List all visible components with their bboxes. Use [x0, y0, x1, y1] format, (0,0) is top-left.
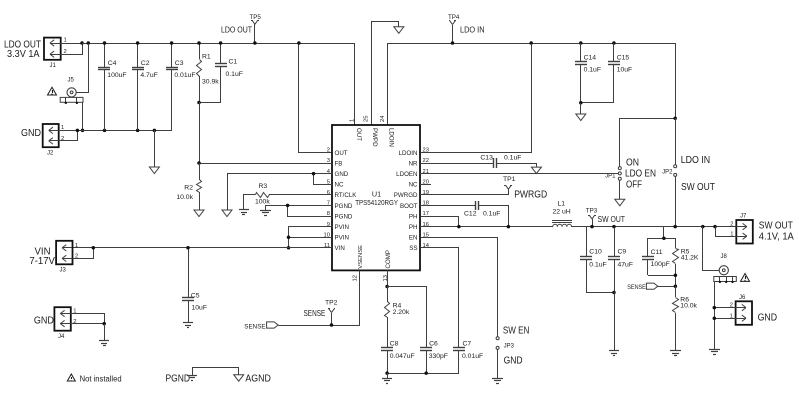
junction R5 bottom	[674, 274, 678, 278]
wire J3 pin2 join	[73, 248, 94, 259]
svg-text:C11: C11	[651, 249, 663, 256]
svg-text:OFF: OFF	[626, 180, 642, 191]
wire NC pin5 join	[314, 174, 333, 185]
wire to J8	[703, 227, 720, 271]
svg-text:JP3: JP3	[504, 343, 515, 349]
label SW EN	[503, 326, 530, 337]
junction pin7/8	[286, 204, 290, 208]
svg-text:ON: ON	[626, 158, 639, 169]
svg-text:C4: C4	[108, 60, 117, 67]
wire VIN bus	[72, 247, 332, 249]
svg-text:PGND: PGND	[335, 203, 353, 210]
svg-text:C7: C7	[463, 341, 472, 348]
svg-text:24: 24	[380, 115, 386, 122]
svg-text:LDO OUT: LDO OUT	[221, 26, 252, 35]
svg-text:47uF: 47uF	[618, 262, 634, 269]
junction TP3	[590, 225, 594, 229]
svg-text:C12: C12	[464, 210, 477, 217]
wire PVIN pin10	[288, 237, 332, 239]
wire SW bus	[420, 226, 553, 228]
wire J5 shield to gnd bus	[82, 102, 84, 130]
capacitor C8	[381, 341, 415, 373]
svg-text:41.2K: 41.2K	[681, 254, 699, 261]
wire GND pin4	[228, 174, 333, 211]
earth ground C5	[183, 323, 193, 328]
svg-text:12: 12	[353, 275, 359, 281]
junction OUT riser	[297, 41, 301, 45]
ground triangle C13	[531, 167, 541, 174]
sense flag right	[627, 283, 675, 291]
wire J8 shield down	[714, 282, 716, 349]
junction J2	[76, 129, 80, 133]
svg-text:C3: C3	[175, 60, 184, 67]
wire C8 gnd stem	[387, 373, 389, 378]
label SW OUT JP2	[681, 182, 715, 193]
junction C14 bottom	[579, 101, 583, 105]
wire pin23 LDOIN	[421, 44, 532, 153]
svg-text:0.047uF: 0.047uF	[390, 353, 415, 360]
svg-text:R3: R3	[259, 183, 268, 190]
svg-text:PWRGD: PWRGD	[514, 189, 547, 201]
junction C6 bottom	[424, 371, 428, 375]
svg-text:0.1uF: 0.1uF	[584, 66, 601, 73]
capacitor C11	[642, 238, 670, 275]
wire J1 pin2 join	[61, 44, 83, 55]
svg-text:0.1uF: 0.1uF	[589, 262, 606, 269]
junction LDO IN corner	[673, 116, 677, 120]
connector J3 VIN	[56, 241, 72, 274]
wire R1 to FB node	[199, 102, 201, 163]
junction J1	[80, 41, 84, 45]
wire C11 bottom	[648, 275, 675, 277]
warning triangle near J5	[48, 87, 57, 95]
wire C14-C15 bottom	[581, 102, 614, 104]
junction pin4/5	[312, 172, 316, 176]
svg-text:2.20k: 2.20k	[393, 309, 410, 316]
testpoint TP2	[325, 300, 338, 325]
svg-text:C2: C2	[141, 60, 150, 67]
junction C3 top	[170, 41, 174, 45]
wire pin21 LDOEN	[420, 173, 618, 175]
junction C14 top	[579, 41, 583, 45]
connector J8 coax	[719, 254, 728, 275]
svg-text:13: 13	[383, 275, 389, 281]
wire JP2 to SW bus	[675, 176, 677, 227]
svg-text:OUT: OUT	[355, 128, 362, 141]
svg-text:PGND: PGND	[166, 374, 191, 385]
capacitor C10	[580, 227, 607, 292]
ground triangle JP1	[615, 199, 625, 206]
svg-text:J2: J2	[47, 151, 54, 157]
wire COMP	[387, 270, 389, 286]
label LDO OUT 3.3V 1A	[4, 40, 41, 61]
junction J3	[92, 246, 96, 250]
wire LDO IN to JP2	[675, 118, 677, 165]
svg-text:R1: R1	[202, 54, 211, 61]
svg-text:4.7uF: 4.7uF	[140, 72, 157, 79]
ground triangle AGND	[234, 375, 244, 382]
svg-text:NC: NC	[335, 182, 344, 189]
net tie PGND	[166, 367, 198, 385]
svg-text:L1: L1	[558, 201, 566, 208]
wire PGND pin7	[266, 206, 333, 211]
wire PGND pin8 join	[288, 206, 333, 217]
svg-text:J4: J4	[58, 334, 65, 340]
ground triangle R2	[194, 210, 204, 217]
svg-text:100k: 100k	[255, 199, 270, 206]
earth ground J4	[99, 341, 109, 346]
svg-text:NC: NC	[409, 182, 418, 189]
svg-text:SENSE: SENSE	[244, 324, 266, 331]
resistor R5	[673, 238, 699, 286]
junction JP2 bottom	[673, 225, 677, 229]
svg-text:7-17V: 7-17V	[29, 256, 55, 267]
wire JP3 to gnd	[497, 349, 499, 378]
junction C4 top	[103, 41, 107, 45]
junction J8 branch	[701, 225, 705, 229]
svg-text:0.1uF: 0.1uF	[226, 71, 243, 78]
J6 pin numbers	[730, 303, 733, 320]
svg-text:LDO IN: LDO IN	[681, 155, 711, 166]
jumper JP2	[662, 165, 677, 177]
junction R1 top	[197, 41, 201, 45]
wire J7 pin1 join	[716, 227, 737, 237]
wire C10-C9 bottom	[586, 292, 614, 294]
wire FB	[199, 163, 332, 165]
junction C15 top	[612, 41, 616, 45]
svg-text:R2: R2	[184, 185, 193, 192]
svg-text:TP2: TP2	[325, 300, 338, 307]
junction sense	[674, 284, 678, 288]
junction C2 gnd	[136, 129, 140, 133]
svg-text:AGND: AGND	[245, 374, 271, 385]
net label SW OUT	[598, 215, 626, 224]
capacitor C1	[215, 43, 243, 102]
svg-text:SW OUT: SW OUT	[598, 215, 626, 224]
svg-text:22 uH: 22 uH	[553, 209, 571, 216]
wire JP1 bottom to gnd	[619, 180, 621, 199]
wire pin24 LDOIN top	[387, 43, 389, 125]
earth ground C9	[609, 351, 619, 356]
earth ground R6	[670, 351, 681, 356]
svg-text:SENSE: SENSE	[627, 284, 646, 291]
svg-text:EN: EN	[409, 235, 418, 242]
svg-text:J6: J6	[739, 295, 746, 301]
junction J5 branch	[87, 41, 91, 45]
label LDO EN	[625, 169, 656, 180]
wire pin1 OUT top	[354, 43, 356, 125]
svg-text:LDOIN: LDOIN	[399, 150, 418, 157]
junction TP5	[253, 41, 257, 45]
wire J4 to gnd	[104, 324, 106, 341]
label PWRGD	[514, 189, 547, 201]
junction J7 pin1 branch	[713, 225, 717, 229]
junction COMP branch	[385, 285, 389, 289]
svg-text:J8: J8	[721, 254, 728, 260]
svg-text:SW OUT: SW OUT	[681, 182, 715, 193]
svg-text:10.0k: 10.0k	[680, 303, 697, 310]
op-amp U1 TPS54120RGY box	[332, 125, 420, 270]
resistor R2	[176, 163, 201, 210]
jumper JP1	[605, 167, 621, 181]
svg-text:COMP: COMP	[385, 250, 392, 269]
svg-text:FB: FB	[335, 160, 343, 167]
jumper JP3	[496, 337, 515, 350]
label GND J2	[21, 128, 41, 139]
svg-text:330pF: 330pF	[429, 353, 448, 360]
svg-text:0.01uF: 0.01uF	[174, 72, 195, 79]
svg-text:3.3V 1A: 3.3V 1A	[7, 49, 40, 60]
svg-text:BOOT: BOOT	[400, 203, 418, 210]
wire PWPD riser	[372, 22, 399, 126]
svg-text:1: 1	[75, 243, 78, 249]
junction C12 join	[507, 225, 511, 229]
J5 shield bar	[60, 97, 83, 104]
svg-text:C10: C10	[589, 249, 602, 256]
connector J6 GND	[736, 295, 752, 325]
earth ground PGND	[260, 211, 271, 216]
svg-text:2: 2	[73, 319, 76, 325]
label GND JP3	[504, 356, 523, 367]
svg-text:NR: NR	[409, 160, 418, 167]
resistor R3	[244, 183, 333, 210]
sense flag left	[244, 322, 278, 331]
wire gnd bus top-left	[104, 130, 172, 132]
wire SW OUT bus	[571, 226, 736, 228]
svg-text:11: 11	[324, 243, 330, 249]
svg-text:PVIN: PVIN	[335, 235, 349, 242]
testpoint TP5	[250, 14, 262, 43]
svg-text:19: 19	[423, 190, 429, 196]
resistor R6	[673, 286, 698, 351]
connector J4 GND	[54, 307, 71, 340]
svg-text:100pF: 100pF	[651, 261, 670, 268]
svg-text:PWRGD: PWRGD	[394, 192, 418, 199]
J3 pin numbers	[75, 243, 78, 260]
svg-text:1: 1	[64, 38, 67, 44]
svg-text:GND: GND	[758, 313, 778, 324]
ground triangle C14	[576, 114, 586, 121]
label OFF	[626, 180, 642, 191]
capacitor C6	[420, 341, 448, 373]
svg-text:LDOEN: LDOEN	[396, 171, 417, 178]
svg-text:J3: J3	[60, 268, 67, 274]
svg-text:GND: GND	[34, 315, 54, 326]
junction C5 top	[186, 246, 190, 250]
svg-text:0.1uF: 0.1uF	[483, 210, 500, 217]
wire pin14 SS	[421, 248, 459, 348]
U1 pin labels	[324, 115, 430, 282]
svg-text:10.0k: 10.0k	[176, 194, 193, 201]
capacitor C14	[575, 43, 601, 103]
wire J2 pin2 join	[59, 131, 78, 141]
junction TP2	[330, 323, 334, 327]
net label LDO IN	[460, 26, 485, 35]
net label SENSE	[304, 309, 326, 318]
svg-text:SENSE: SENSE	[304, 309, 326, 318]
wire COMP to C6	[388, 287, 427, 348]
note not installed	[67, 374, 121, 384]
connector J5 coax	[67, 78, 76, 98]
svg-text:SS: SS	[409, 245, 417, 252]
svg-text:14: 14	[423, 243, 430, 249]
ground triangle PWPD	[394, 27, 404, 34]
svg-text:C13: C13	[480, 154, 493, 161]
capacitor C2	[132, 43, 158, 130]
junction J4	[102, 322, 106, 326]
svg-text:LDOIN: LDOIN	[388, 128, 395, 147]
junction C9 top	[612, 225, 616, 229]
connector J1 LDO OUT	[44, 38, 61, 69]
junction FB	[197, 161, 201, 165]
J1 pin numbers	[64, 38, 67, 56]
testpoint TP3	[586, 208, 598, 228]
inductor L1	[552, 201, 572, 227]
junction J6 pin2	[713, 306, 717, 310]
J4 pin numbers	[73, 309, 76, 325]
earth ground R3	[239, 210, 249, 215]
wire LDO OUT bus	[82, 43, 354, 45]
wire J4 pin2	[71, 323, 104, 325]
capacitor C3	[166, 43, 196, 130]
svg-text:4.1V, 1A: 4.1V, 1A	[759, 232, 794, 243]
net label LDO OUT	[221, 26, 252, 35]
svg-text:C15: C15	[617, 55, 630, 62]
junction C11/R5 top	[662, 237, 666, 241]
junction PVIN-VIN	[287, 246, 291, 250]
label GND J6	[758, 313, 778, 324]
junction C1 top	[219, 41, 223, 45]
J8 shield bar	[714, 276, 737, 283]
svg-text:10uF: 10uF	[192, 305, 208, 312]
wire SW bus to C11/R5	[663, 227, 665, 238]
wire OUT pin2 riser	[299, 44, 333, 153]
label SW OUT 4.1V	[759, 221, 794, 243]
svg-text:VIN: VIN	[335, 245, 345, 252]
label AGND	[245, 374, 271, 385]
capacitor C7	[453, 341, 483, 373]
resistor R4	[385, 286, 410, 348]
svg-text:LDO EN: LDO EN	[625, 169, 656, 180]
svg-text:SW OUT: SW OUT	[759, 221, 793, 232]
wire pin19 PWRGD	[420, 194, 508, 196]
svg-text:C14: C14	[584, 55, 597, 62]
wire C11 R5 top	[648, 238, 675, 240]
earth ground C8	[382, 379, 392, 384]
wire pin17 PH	[421, 217, 459, 227]
wire caps bottom	[387, 373, 459, 375]
svg-text:OUT: OUT	[335, 150, 348, 157]
connector J2 GND	[43, 124, 59, 157]
wire C9 to gnd	[614, 292, 616, 351]
wire J1 pin1 to LDO OUT bus	[61, 43, 82, 45]
testpoint TP4	[448, 14, 460, 43]
label LDO IN JP2	[681, 155, 711, 166]
svg-text:25: 25	[364, 116, 370, 122]
warning triangle near J8	[741, 274, 750, 282]
svg-text:6: 6	[327, 190, 330, 196]
svg-text:PH: PH	[409, 213, 418, 220]
wire J6 pin1	[714, 318, 736, 320]
svg-text:J5: J5	[68, 78, 75, 84]
connector J7 SW OUT	[736, 214, 753, 244]
svg-text:0.1uF: 0.1uF	[504, 154, 521, 161]
J7 pin numbers	[730, 222, 733, 238]
junction pin10	[287, 235, 291, 239]
label VIN 7-17V	[29, 247, 55, 268]
svg-text:2: 2	[327, 148, 330, 154]
svg-text:J1: J1	[50, 63, 57, 69]
capacitor C15	[608, 43, 632, 103]
svg-text:Not installed: Not installed	[80, 375, 122, 384]
junction agnd drop	[153, 129, 157, 133]
svg-text:PVIN: PVIN	[335, 224, 349, 231]
svg-text:TP1: TP1	[503, 176, 516, 183]
wire R1-C1 bottom	[199, 102, 221, 104]
wire PVIN pin9	[289, 227, 333, 248]
wire gnd bus drop	[154, 130, 156, 167]
svg-text:2: 2	[730, 222, 733, 228]
svg-text:2: 2	[61, 136, 64, 142]
junction pin23 riser top	[529, 41, 533, 45]
svg-text:0.01uF: 0.01uF	[462, 353, 483, 360]
wire J5 to bus	[77, 44, 89, 93]
earth ground J8	[709, 350, 720, 355]
svg-text:C6: C6	[429, 341, 438, 348]
svg-text:100uF: 100uF	[107, 72, 126, 79]
label GND J4	[34, 315, 54, 326]
earth ground JP3	[492, 379, 503, 384]
wire J4 pin1	[71, 314, 105, 324]
svg-text:JP2: JP2	[662, 170, 673, 176]
capacitor C4	[98, 43, 127, 130]
svg-text:1: 1	[349, 119, 355, 122]
svg-text:PGND: PGND	[335, 213, 353, 220]
svg-text:J7: J7	[740, 214, 747, 220]
label ON	[626, 158, 639, 169]
wire J6 pin2	[714, 307, 736, 309]
svg-text:C9: C9	[618, 249, 627, 256]
junction R1 bottom	[197, 101, 201, 105]
ground triangle pin4	[222, 210, 232, 217]
svg-text:PWPD: PWPD	[371, 128, 378, 147]
svg-text:U1: U1	[372, 189, 381, 198]
svg-text:TP3: TP3	[586, 208, 598, 215]
wire VSENSE	[279, 271, 360, 326]
junction J5 shield	[81, 129, 85, 133]
svg-text:VSENSE: VSENSE	[358, 245, 364, 269]
wire pin15 EN	[421, 238, 498, 337]
svg-text:TP4: TP4	[448, 14, 460, 21]
wire LDO IN bus	[388, 44, 676, 119]
resistor R1	[197, 43, 220, 102]
J2 pin numbers	[61, 125, 64, 142]
svg-text:JP1: JP1	[605, 174, 616, 180]
wire LDO IN to JP1	[620, 119, 676, 167]
svg-text:TPS54120RGY: TPS54120RGY	[355, 198, 398, 207]
junction pin17 join	[457, 225, 461, 229]
ground triangle cap bank	[149, 167, 159, 174]
svg-text:C5: C5	[191, 293, 200, 300]
junction C2 top	[136, 41, 140, 45]
junction C4 gnd	[103, 129, 107, 133]
svg-text:GND: GND	[21, 128, 41, 139]
junction J6 pin1	[713, 316, 717, 320]
svg-text:GND: GND	[504, 356, 523, 367]
svg-text:C8: C8	[390, 341, 399, 348]
svg-text:RT/CLK: RT/CLK	[335, 192, 358, 199]
junction C8 bottom	[385, 371, 389, 375]
